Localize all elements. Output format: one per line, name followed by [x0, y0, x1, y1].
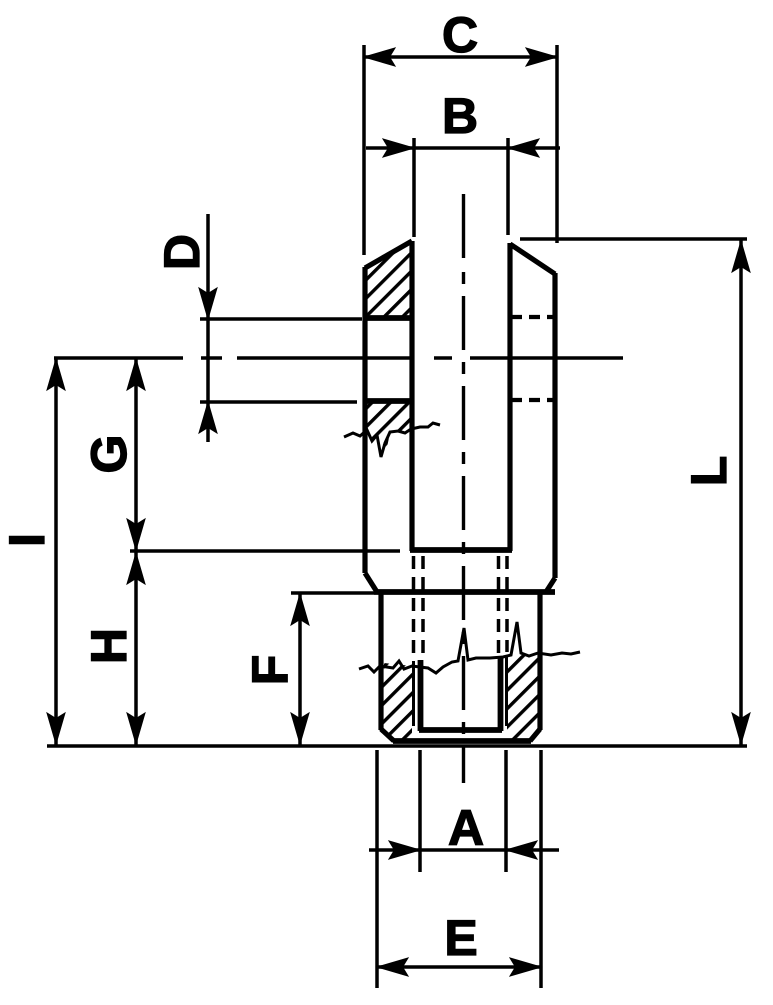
stud bottom right chamfer: [530, 729, 540, 741]
extension line E right: [539, 750, 543, 988]
dimension G top arrow: [127, 359, 145, 390]
right arm bottom chamfer: [546, 578, 555, 592]
dimension I line: [54, 358, 58, 745]
bore left wall: [418, 660, 424, 731]
dimension F top arrow: [291, 594, 309, 625]
dimension L line: [739, 240, 743, 745]
dimension L bottom arrow: [732, 713, 750, 744]
stud bottom left chamfer: [381, 729, 394, 741]
stud bottom edge: [393, 738, 531, 744]
dimension C left arrow: [364, 48, 395, 66]
thread major line right: [505, 655, 508, 726]
dimension A right arrow: [506, 841, 537, 859]
dimension C line: [364, 55, 557, 59]
svg-text:I: I: [0, 533, 55, 547]
extension line E left: [375, 750, 379, 988]
left arm inner edge: [409, 241, 414, 551]
right arm outer edge: [552, 273, 557, 578]
bore bottom: [419, 727, 502, 733]
svg-text:C: C: [442, 7, 478, 63]
bore right wall: [498, 656, 504, 731]
hidden thread lines above break: [414, 556, 508, 658]
svg-text:B: B: [442, 88, 478, 144]
break line on stud: [359, 622, 580, 673]
dimension H bottom arrow: [127, 713, 145, 744]
right arm inner edge: [507, 243, 512, 551]
dimension G line (shared with H): [134, 358, 138, 745]
extension line shoulder (F top): [291, 591, 374, 594]
extension line D upper (hole top): [200, 317, 362, 320]
extension line A right: [504, 750, 508, 872]
extension line part bottom: [47, 744, 747, 747]
dimension F bottom arrow: [291, 713, 309, 744]
svg-text:G: G: [81, 435, 137, 474]
svg-text:A: A: [448, 800, 484, 856]
svg-text:D: D: [154, 234, 210, 270]
break line on left arm: [344, 423, 440, 457]
dimension F line: [298, 593, 302, 745]
dimension D upper arrow: [199, 288, 217, 319]
left arm top chamfer: [365, 241, 412, 268]
pin hole bottom edge: [363, 398, 414, 404]
dimension A left arrow: [389, 841, 420, 859]
dimension E left arrow: [377, 958, 408, 976]
dimension C right arrow: [526, 48, 557, 66]
extension line B left: [412, 138, 416, 237]
dimension B left arrow: [383, 139, 414, 157]
extension line A left: [418, 750, 422, 872]
extension line D lower (hole bottom): [200, 400, 357, 403]
extension line L top: [520, 237, 747, 240]
thread major line left: [412, 661, 415, 726]
dimension D line: [206, 214, 210, 442]
dimension E line: [377, 965, 541, 969]
upper hatch block of left arm: [365, 240, 412, 316]
svg-text:L: L: [681, 456, 737, 487]
hidden hole line right arm top: [511, 315, 554, 319]
dimension E right arrow: [510, 958, 541, 976]
lower hatch block of left arm: [363, 403, 414, 452]
svg-text:F: F: [242, 655, 298, 686]
shoulder line: [374, 589, 555, 595]
dimension B right arrow: [508, 139, 539, 157]
dimension D lower arrow: [199, 402, 217, 433]
vertical centerline: [462, 194, 465, 783]
extension line C left: [362, 45, 366, 255]
svg-text:E: E: [444, 910, 477, 966]
horizontal centerline of pin hole: [54, 356, 623, 359]
dimension H top arrow: [127, 553, 145, 584]
dimension B line: [366, 146, 560, 150]
stud left edge: [378, 592, 383, 730]
dimension A line: [369, 848, 559, 852]
extension line B right: [506, 138, 510, 235]
bottom-right hatch band: [507, 653, 538, 741]
left arm outer edge: [362, 267, 367, 573]
dimension G bottom arrow: [127, 519, 145, 550]
extension line C right: [555, 45, 559, 243]
hidden hole line right arm bottom: [511, 398, 554, 402]
slot bottom line: [410, 547, 512, 553]
dimension I bottom arrow: [47, 713, 65, 744]
stud right edge: [537, 592, 542, 730]
right arm top chamfer: [510, 244, 555, 274]
dimension I top arrow: [47, 359, 65, 390]
left arm bottom chamfer: [365, 573, 377, 592]
dimension L top arrow: [732, 241, 750, 272]
svg-text:H: H: [81, 628, 137, 664]
pin hole top edge: [363, 315, 414, 321]
bottom-left hatch band: [381, 663, 412, 741]
extension line slot bottom (G/H): [130, 549, 400, 552]
